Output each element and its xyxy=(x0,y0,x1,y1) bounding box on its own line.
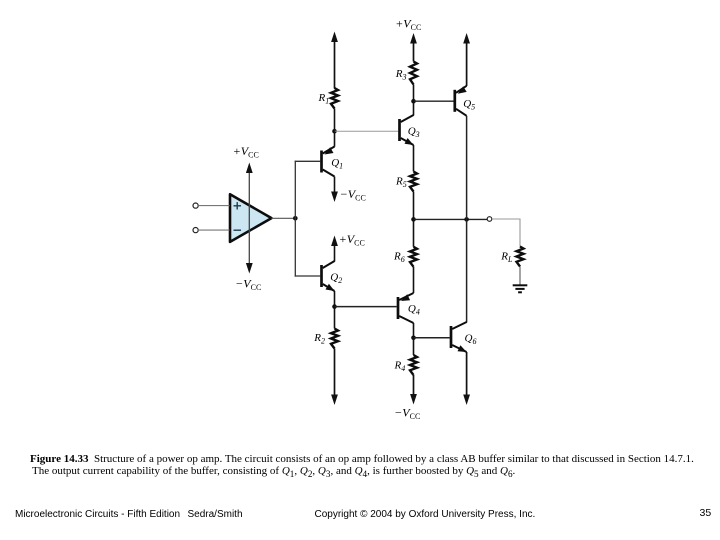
label R2 xyxy=(313,332,325,346)
wire Q6 base xyxy=(414,337,450,339)
wire node to R6 xyxy=(413,219,415,246)
label +VCC (Q2) xyxy=(340,232,365,248)
wire op-amp supply line xyxy=(248,168,250,269)
op-amp +VCC supply arrow xyxy=(246,163,253,174)
input terminal (noninverting) xyxy=(193,203,198,208)
resistor R2 xyxy=(331,329,338,349)
resistor R1 xyxy=(331,88,338,109)
supply arrow down (Q6 emitter) xyxy=(463,352,470,405)
wire inverting input xyxy=(198,229,229,231)
svg-text:Q1: Q1 xyxy=(331,157,343,171)
transistor Q6 (npn) xyxy=(451,322,467,352)
svg-text:+VCC: +VCC xyxy=(396,17,421,33)
wire base bus vertical xyxy=(294,161,296,277)
label R1 xyxy=(318,92,330,106)
op-amp U1 xyxy=(230,194,272,242)
svg-text:Q6: Q6 xyxy=(465,333,477,347)
supply arrow up (R1 branch) xyxy=(331,32,338,89)
label R3 xyxy=(395,68,407,82)
svg-text:R5: R5 xyxy=(395,176,407,190)
wire Q5 base xyxy=(414,100,454,102)
wire Q3 collector lead xyxy=(413,101,415,115)
footer page number xyxy=(700,507,712,519)
transistor Q1 (pnp) xyxy=(322,147,335,177)
label RL xyxy=(500,251,513,265)
output terminal xyxy=(487,217,492,222)
label Q2 xyxy=(330,272,342,286)
supply arrow up +VCC (Q2 collector) xyxy=(331,236,338,262)
svg-text:−VCC: −VCC xyxy=(395,406,420,422)
footer left xyxy=(15,509,180,520)
svg-text:Q3: Q3 xyxy=(408,126,420,140)
node Q4/R4/Q6-base junction xyxy=(411,336,416,341)
wire node to R4 xyxy=(413,338,415,355)
resistor R4 xyxy=(410,355,417,375)
label Q6 xyxy=(465,333,477,347)
label -VCC (R4 branch) xyxy=(395,406,420,422)
label R5 xyxy=(395,176,407,190)
svg-text:−VCC: −VCC xyxy=(341,187,366,203)
wire Q4 collector to node xyxy=(413,323,415,338)
footer author xyxy=(188,509,243,520)
svg-text:R4: R4 xyxy=(394,360,406,374)
svg-text:R6: R6 xyxy=(393,251,405,265)
op-amp -VCC supply arrow xyxy=(246,263,253,274)
transistor Q2 (npn) xyxy=(322,261,335,291)
label +VCC (R3 branch) xyxy=(396,17,421,33)
wire R5 to output node xyxy=(413,192,415,220)
transistor Q3 (npn) xyxy=(400,115,414,145)
svg-text:R3: R3 xyxy=(395,68,407,82)
svg-text:RL: RL xyxy=(500,251,513,265)
label +VCC (op-amp) xyxy=(234,144,259,160)
wire R3 to node xyxy=(413,85,415,102)
transistor Q5 (pnp) xyxy=(455,86,467,116)
svg-text:R1: R1 xyxy=(318,92,330,106)
svg-text:Q5: Q5 xyxy=(463,98,475,112)
wire Q1 base xyxy=(295,160,321,162)
wire Q5 collector to output xyxy=(466,116,468,220)
svg-text:−VCC: −VCC xyxy=(236,277,261,293)
footer center xyxy=(315,509,536,520)
wire Q3 base xyxy=(335,130,399,132)
caption line 1 xyxy=(30,453,694,465)
svg-text:Q4: Q4 xyxy=(408,303,420,317)
label -VCC (op-amp) xyxy=(236,277,261,293)
svg-text:+VCC: +VCC xyxy=(234,144,259,160)
node R1/Q1/Q3-base junction xyxy=(332,129,337,134)
caption line 2 xyxy=(32,465,515,479)
wire op-amp output xyxy=(272,217,296,219)
resistor R3 xyxy=(410,62,417,85)
wire output line xyxy=(414,218,488,220)
ground xyxy=(513,285,528,292)
label R4 xyxy=(394,360,406,374)
resistor RL xyxy=(517,247,524,267)
supply arrow up (R3 branch) xyxy=(410,33,417,62)
wire noninverting input xyxy=(198,205,229,207)
label Q4 xyxy=(408,303,420,317)
svg-text:R2: R2 xyxy=(313,332,325,346)
label Q3 xyxy=(408,126,420,140)
wire R1 to node xyxy=(334,109,336,132)
node op-amp output junction xyxy=(293,216,298,221)
supply arrow down (R4 branch) xyxy=(410,375,417,405)
node output/Q5/Q6 collector junction xyxy=(464,217,469,222)
node output/R5/R6 junction xyxy=(411,217,416,222)
supply arrow up (Q5 emitter) xyxy=(463,33,470,86)
svg-text:+VCC: +VCC xyxy=(340,232,365,248)
label Q5 xyxy=(463,98,475,112)
input terminal (inverting) xyxy=(193,228,198,233)
wire RL to ground xyxy=(519,267,521,285)
wire Q4 base xyxy=(335,306,397,308)
label -VCC (Q1) xyxy=(341,187,366,203)
transistor Q4 (pnp) xyxy=(398,293,414,323)
label R6 xyxy=(393,251,405,265)
resistor R5 xyxy=(410,172,417,192)
wire node to R2 xyxy=(334,307,336,329)
wire R6 to Q4 emitter xyxy=(413,267,415,293)
node R3/Q3/Q5-base junction xyxy=(411,99,416,104)
wire Q1 emitter lead xyxy=(334,131,336,147)
supply arrow down -VCC (Q1 collector) xyxy=(331,177,338,203)
supply arrow down (R2 branch) xyxy=(331,349,338,406)
resistor R6 xyxy=(410,247,417,267)
wire Q2 base xyxy=(295,275,321,277)
node Q2/R2/Q4-base junction xyxy=(332,304,337,309)
svg-text:Q2: Q2 xyxy=(330,272,342,286)
label Q1 xyxy=(331,157,343,171)
wire Q3 emitter to R5 xyxy=(413,145,415,172)
wire output to RL xyxy=(492,219,520,247)
wire Q6 collector to output xyxy=(466,219,468,322)
wire Q2 emitter to node xyxy=(334,291,336,307)
